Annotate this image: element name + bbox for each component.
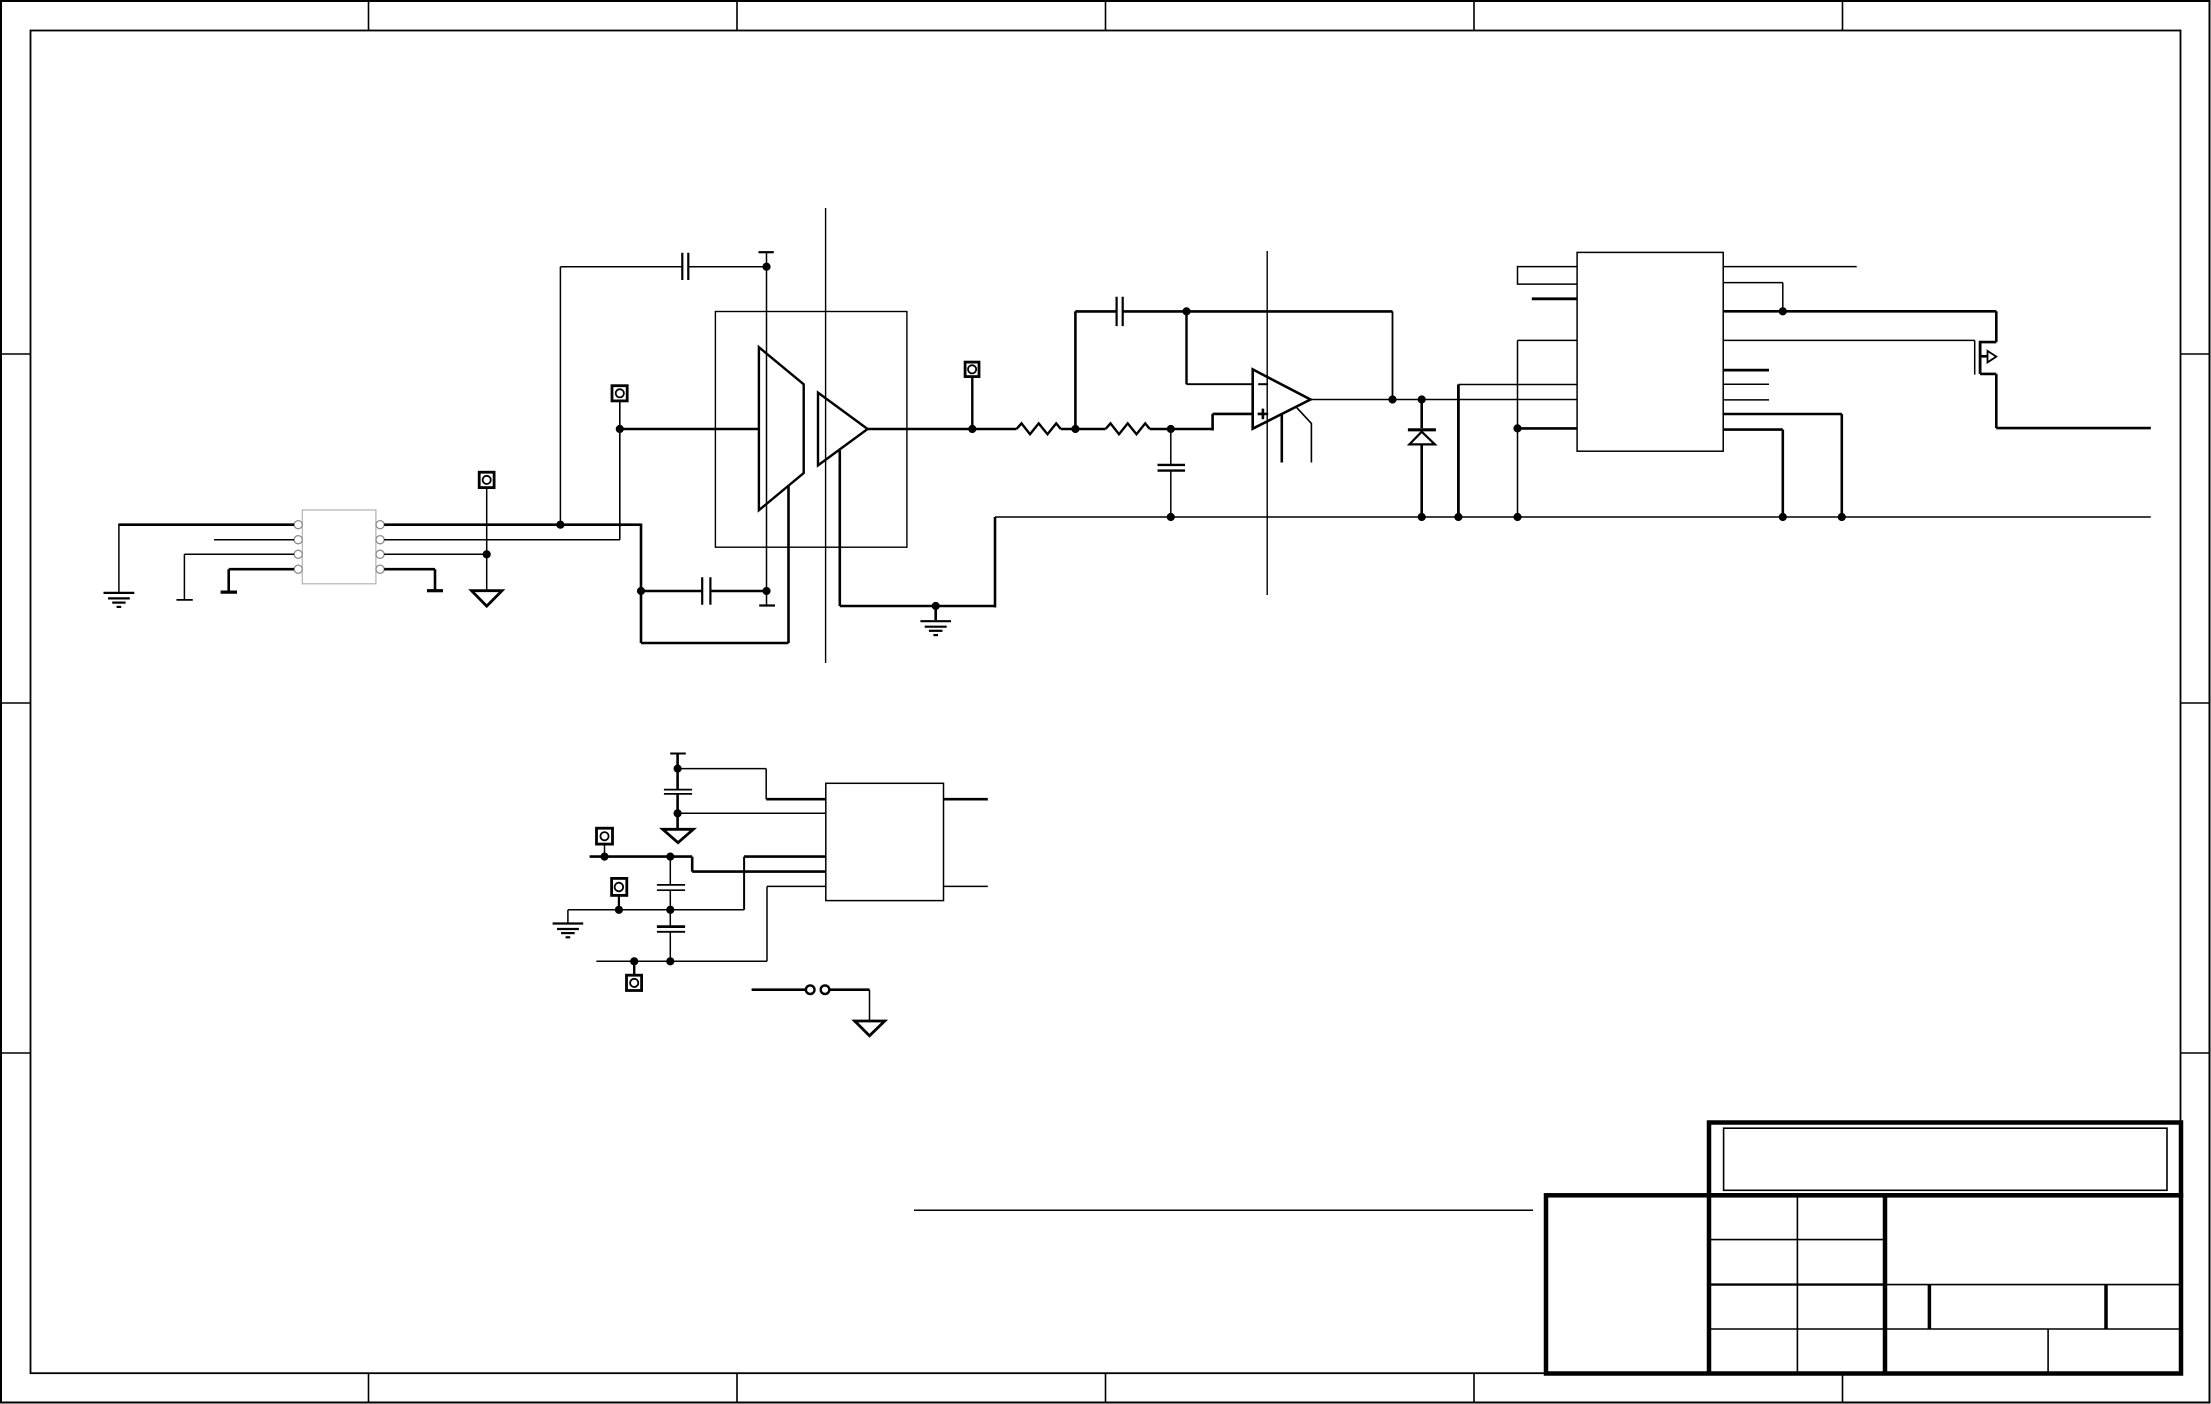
wire vertical net bottom stub xyxy=(766,591,768,605)
wire diode bottom xyxy=(1420,444,1423,517)
wire U3 left thick stub xyxy=(1532,297,1577,300)
junction dot diode bus xyxy=(1418,513,1425,520)
chassis bar pin4 xyxy=(221,590,237,593)
chassis bar pin5 xyxy=(427,589,443,592)
wire feedback riser right xyxy=(1392,311,1394,399)
wire C6 upper lead xyxy=(669,857,671,885)
junction dot pin8 feedback xyxy=(557,521,564,528)
junction dot C4 tee xyxy=(1167,425,1174,432)
wire U4 pin2 xyxy=(678,812,826,814)
junction dot C4 bus xyxy=(1167,513,1174,520)
test point TP4 xyxy=(597,828,613,844)
resistor R1 xyxy=(1017,423,1061,434)
wire feedback cap C1 left xyxy=(560,267,682,525)
wire bus riser A to U3 xyxy=(1458,385,1577,518)
wire vertical net through buffer xyxy=(766,252,768,591)
terminal bar C5 top xyxy=(670,753,686,755)
crossing line 2 xyxy=(1266,251,1268,595)
wire low net riser xyxy=(767,886,826,961)
wire U3 shorted pins bracket xyxy=(1518,267,1578,285)
wire C5 to ground xyxy=(676,813,679,828)
wire U3 right stub b xyxy=(1723,399,1769,401)
capacitor C1 xyxy=(682,253,688,280)
wire U3 bottom-left pin xyxy=(1518,427,1578,430)
junction dot C6 bottom xyxy=(667,906,674,913)
wire C2 right xyxy=(710,590,766,593)
op-amp plus label xyxy=(1258,409,1269,420)
wire J1 pin1 xyxy=(119,524,294,592)
wire switch to ground xyxy=(869,990,871,1021)
wire U4 pin1 xyxy=(678,769,826,800)
wire gate net xyxy=(1723,339,1975,341)
op-amp power stub 2 xyxy=(1297,408,1312,463)
wire buffer output xyxy=(868,428,1017,431)
wire feedback top right xyxy=(1123,310,1393,313)
wire main input net L xyxy=(641,487,789,644)
op-amp U2 xyxy=(1253,369,1311,428)
resistor R2 xyxy=(1106,423,1150,434)
buffer U1 body xyxy=(715,312,907,548)
wire C6 lower lead xyxy=(669,890,671,910)
wire J1 pin8 net xyxy=(384,523,641,526)
transistor Q1 arrow xyxy=(1988,351,1997,363)
capacitor C3 xyxy=(1117,297,1123,326)
junction dot ground tap xyxy=(932,602,939,609)
test point TP3 xyxy=(965,362,979,377)
transistor Q1 drain contact xyxy=(1980,341,1996,344)
diode D1 cathode bar xyxy=(1408,428,1436,431)
test point TP5 xyxy=(612,878,627,895)
wire TP1 stem xyxy=(486,488,488,590)
wire C7 upper lead xyxy=(669,910,671,926)
junction dot C1 net xyxy=(763,263,770,270)
wire U3 right stub thick xyxy=(1723,369,1769,372)
wire TP2 stem xyxy=(619,401,621,540)
crossing line 1 xyxy=(825,208,827,663)
ground tail bar pin3 xyxy=(177,599,193,601)
wire U4 pin vdd2 xyxy=(744,855,826,858)
ground GND1 earth xyxy=(104,593,135,607)
junction dot output feedback xyxy=(1389,396,1396,403)
wire J1 pin6 xyxy=(384,553,487,555)
wire diode top xyxy=(1420,400,1423,429)
op-amp minus label xyxy=(1258,383,1268,385)
wire J1 pin2 stub xyxy=(214,539,294,541)
wire TP5 stem xyxy=(618,895,620,909)
wire R2 to op-amp xyxy=(1150,414,1253,431)
wire C1 right xyxy=(688,266,766,268)
junction dot TP5 xyxy=(615,906,622,913)
wire U4 right stub thin xyxy=(944,885,988,887)
wire bus riser B to U3 xyxy=(1518,340,1578,517)
capacitor C5 xyxy=(664,790,692,794)
wire C4 top xyxy=(1170,429,1172,464)
wire supply net xyxy=(590,857,826,872)
transistor Q1 body contact xyxy=(1980,355,1987,358)
wire U4 right stub thick xyxy=(944,798,988,801)
junction dot TP6 xyxy=(631,958,638,965)
IC U3 body xyxy=(1577,252,1723,451)
junction dot TP3 main xyxy=(969,425,976,432)
junction dot riser A bus xyxy=(1455,513,1462,520)
junction dot feedback left xyxy=(1072,425,1079,432)
connector J1 xyxy=(294,510,384,584)
junction dot riser B bus xyxy=(1514,513,1521,520)
junction dot C2 tee xyxy=(637,587,644,594)
wire TP4 stem xyxy=(604,844,606,857)
capacitor C7 xyxy=(657,927,685,932)
wire main to buffer xyxy=(620,428,759,431)
wire C2 left xyxy=(641,590,702,593)
terminal bar top xyxy=(759,251,774,253)
ground GND3 earth xyxy=(920,621,951,635)
wire low net xyxy=(596,960,767,962)
wire ground bus xyxy=(995,516,2151,518)
junction dot C2 net xyxy=(763,587,770,594)
switch SW1 right lead xyxy=(829,988,869,991)
IC U4 body xyxy=(826,783,944,900)
wire C5 upper lead xyxy=(676,769,679,789)
wire vdd2 riser xyxy=(743,857,745,910)
wire GND3 stem xyxy=(934,606,937,620)
wire J1 pin4 xyxy=(229,569,294,591)
capacitor C2 xyxy=(702,577,710,605)
wire TP3 stem xyxy=(971,377,973,429)
test point TP6 xyxy=(627,975,642,990)
op-amp power stub 1 xyxy=(1281,414,1284,463)
wire U3 pin to bus A xyxy=(1723,414,1842,517)
ground arrow GND4 xyxy=(663,829,694,842)
wire mid net to ground xyxy=(567,910,569,923)
wire R1 to R2 xyxy=(1061,428,1106,431)
junction dot inverting branch xyxy=(1183,308,1190,315)
junction dot TP4 xyxy=(601,853,608,860)
wire op-amp output xyxy=(1311,399,1578,401)
switch SW1 left lead xyxy=(752,988,806,991)
wire C7 lower lead xyxy=(669,932,671,962)
capacitor C4 xyxy=(1158,465,1186,471)
wire feedback top left xyxy=(1075,310,1116,313)
wire feedback riser left xyxy=(1074,311,1077,429)
junction dot riser B pin xyxy=(1514,425,1521,432)
junction dot C5 bottom xyxy=(674,810,681,817)
transistor Q1 gate bar xyxy=(1974,340,1976,374)
ground arrow GND2 xyxy=(472,591,503,606)
terminal bar bottom xyxy=(759,604,775,606)
junction dot bus B xyxy=(1779,513,1786,520)
wire U3 pin to bus B xyxy=(1723,430,1783,517)
ground arrow GND6 xyxy=(855,1021,885,1036)
switch SW1 contacts xyxy=(806,985,829,994)
junction dot C7 bottom xyxy=(667,958,674,965)
transistor Q1 channel bar xyxy=(1979,341,1982,374)
junction dot C6 top xyxy=(667,853,674,860)
wire U3 pin to drain net xyxy=(1723,283,1783,312)
junction dot output diode xyxy=(1418,396,1425,403)
wire C5 top xyxy=(676,754,679,769)
wire U3 right long stub xyxy=(1723,266,1857,268)
wire J1 pin3 xyxy=(184,554,294,599)
wire bus riser left xyxy=(994,517,997,608)
junction dot bus A xyxy=(1838,513,1845,520)
buffer U1 amp triangle xyxy=(818,393,868,466)
wire U3 right stub a xyxy=(1723,383,1769,385)
diode D1 xyxy=(1409,432,1435,445)
wire inverting input xyxy=(1187,311,1253,384)
wire C4 bottom xyxy=(1170,471,1172,517)
junction dot pin6 TP1 xyxy=(483,551,490,558)
wire source net xyxy=(1996,374,2151,428)
wire C5 lower lead xyxy=(676,794,679,813)
test point TP2 xyxy=(612,386,627,401)
ground GND5 earth xyxy=(553,924,584,938)
transistor Q1 source contact xyxy=(1980,373,1996,376)
wire J1 pin7 xyxy=(384,539,620,541)
test point TP1 xyxy=(479,472,494,487)
wire TP6 stem xyxy=(633,961,635,975)
junction dot drain net xyxy=(1779,308,1786,315)
wire J1 pin5 xyxy=(384,569,435,589)
capacitor C6 xyxy=(657,885,685,890)
wire drain net xyxy=(1723,311,1996,342)
buffer U1 attenuator trapezoid xyxy=(759,347,804,510)
wire buffer lower tap xyxy=(840,451,995,607)
junction dot TP2 main xyxy=(616,425,623,432)
wire mid net xyxy=(568,909,744,911)
junction dot C5 top xyxy=(674,765,681,772)
